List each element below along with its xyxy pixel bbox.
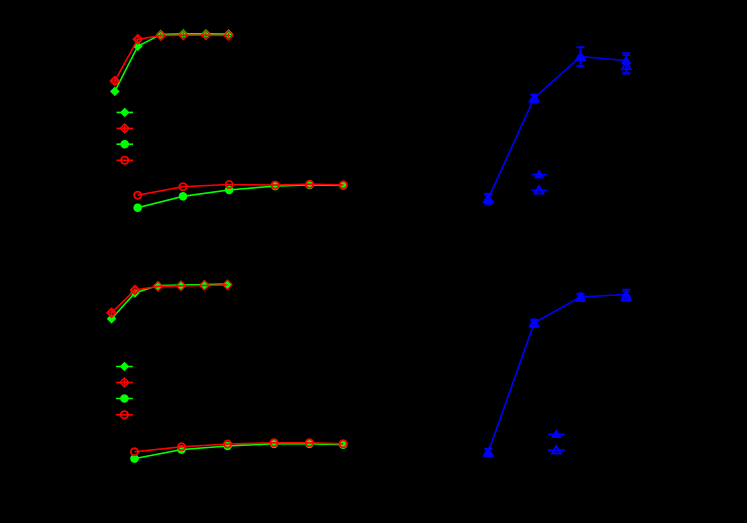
top-right legend xyxy=(531,170,547,193)
series TR blue open-triangle error bars xyxy=(484,48,630,205)
series BL green filled-diamond markers xyxy=(107,279,233,323)
top-left legend xyxy=(117,108,134,164)
TL legend entry 4: red open circle xyxy=(117,157,134,164)
series TL red open-diamond markers xyxy=(111,31,234,86)
series TL green filled-circle line xyxy=(138,185,344,208)
BL legend entry 4: red open circle xyxy=(116,411,133,418)
series TL green filled-circle markers xyxy=(133,181,347,212)
series TL red open-diamond error ticks xyxy=(112,32,231,83)
TL legend entry 3: green filled circle xyxy=(117,140,134,149)
BR legend entry 1: blue filled triangle xyxy=(548,430,565,437)
series TL red open-diamond line xyxy=(115,35,229,81)
series TL red open-circle line xyxy=(138,184,344,195)
series BL red open-diamond error ticks xyxy=(109,288,137,316)
series BL green filled-circle line xyxy=(135,444,344,459)
series BL green filled-circle markers xyxy=(130,440,347,463)
series TR blue filled-triangle line xyxy=(488,57,626,199)
BL legend entry 1: green filled diamond xyxy=(116,362,133,371)
series TL green filled-diamond line xyxy=(115,34,229,92)
series BL green filled-diamond line xyxy=(112,284,228,319)
TR legend entry 1: blue filled triangle xyxy=(531,170,547,177)
series BL red open-circle line xyxy=(135,443,344,452)
series BR blue filled-triangle markers xyxy=(484,290,631,455)
series BL red open-diamond line xyxy=(112,285,228,313)
bottom-left subplot: diamond pair (upper) and circle pair (lower) xyxy=(107,279,348,463)
BR legend entry 2: blue open triangle xyxy=(548,446,565,453)
BL legend entry 2: red open diamond xyxy=(116,378,133,387)
bottom-right subplot: blue triangle curves xyxy=(484,290,631,457)
TR legend entry 2: blue open triangle xyxy=(531,186,547,193)
series TL green filled-diamond markers xyxy=(110,29,233,96)
series BR blue filled-triangle line xyxy=(488,295,626,453)
series BR blue filled-triangle error bars xyxy=(484,290,630,456)
bottom-right legend xyxy=(548,430,565,453)
series BL red open-diamond markers xyxy=(107,280,232,317)
series BL red open-circle markers xyxy=(131,439,347,455)
series TR blue filled-triangle markers xyxy=(484,52,631,201)
TL legend entry 1: green filled diamond xyxy=(117,108,134,117)
series TR blue open-triangle markers xyxy=(484,53,631,202)
top-left subplot: dose-response curves, diamond pair (upper) and circle pair (lower) xyxy=(110,29,348,212)
series BR blue open-triangle error bars xyxy=(484,292,630,457)
series TR blue filled-triangle error bars xyxy=(484,47,630,203)
TL legend entry 2: red open diamond xyxy=(117,124,134,133)
BL legend entry 3: green filled circle xyxy=(116,394,133,403)
series TL red open-circle markers xyxy=(134,181,347,199)
top-right subplot: blue triangle curves xyxy=(484,47,631,204)
bottom-left legend xyxy=(116,362,133,419)
series BR blue open-triangle markers xyxy=(484,293,631,456)
